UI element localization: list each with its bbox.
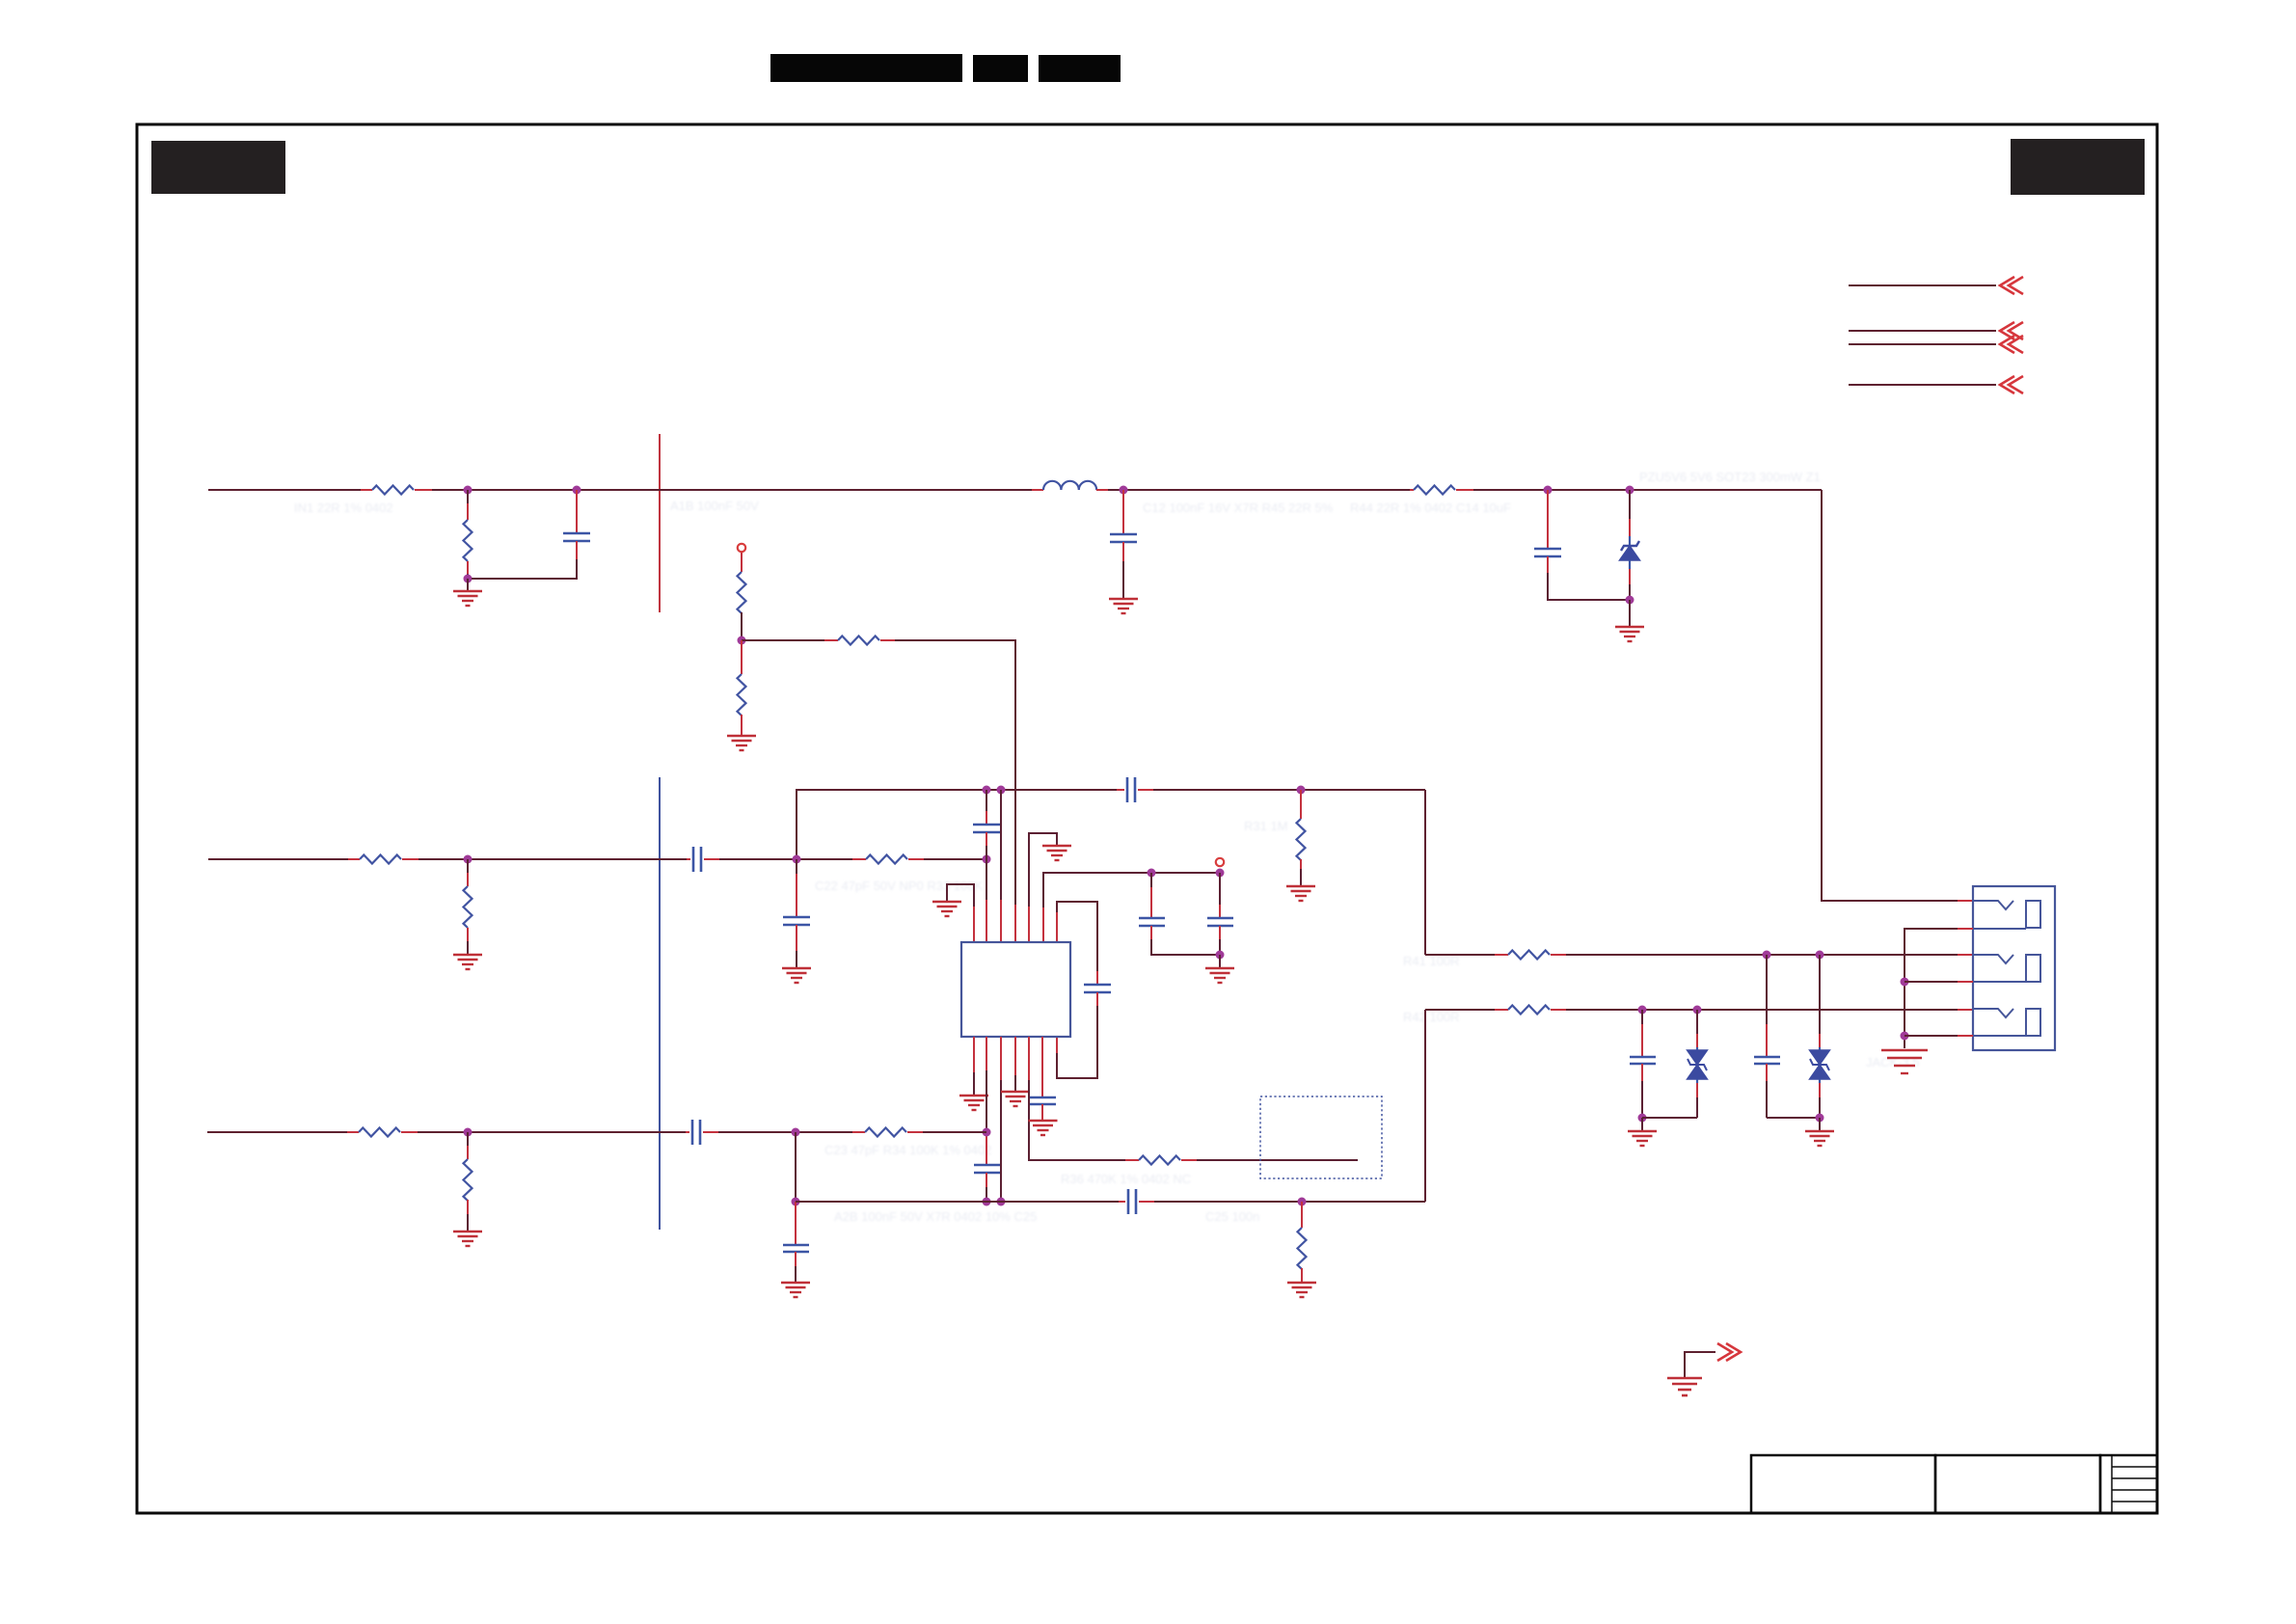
wire bottom pin4 to ground: [1014, 1037, 1016, 1092]
resistor R5 (to ground): [738, 640, 746, 736]
svg-text:R41 100R: R41 100R: [1403, 954, 1460, 968]
wire red stub into connector pin5: [1958, 1009, 1973, 1011]
svg-text:R44 22R 1% 0402 C14 10uF: R44 22R 1% 0402 C14 10uF: [1350, 501, 1511, 515]
ground GND14: [453, 1232, 482, 1246]
node dot pin3/busB: [997, 1198, 1006, 1206]
capacitor C6 (to ground): [783, 859, 810, 968]
wire input3 to pin2 column: [923, 1131, 986, 1133]
off-page connector arrow net A: [1849, 277, 2023, 294]
wire busB corner up: [1424, 1010, 1426, 1202]
wire divider lead: [467, 490, 469, 503]
wire to ground: [1819, 1118, 1821, 1131]
ground GND8: [932, 902, 961, 916]
ground GND4: [727, 736, 756, 750]
wire pin2 column with capacitor C7: [973, 790, 1000, 942]
node dot pin2/busB: [983, 1198, 991, 1206]
ground GND12: [1001, 1092, 1030, 1106]
resistor R6 (bus to ground): [1297, 790, 1306, 886]
ground GND10: [1205, 968, 1234, 983]
node dot C16/D2 junction: [1638, 1114, 1647, 1123]
svg-text:C23 47pF R34 100K 1% 0402: C23 47pF R34 100K 1% 0402: [824, 1143, 991, 1157]
ground GND7: [782, 968, 811, 983]
resistor R1: [361, 486, 432, 495]
wire branch column down: [795, 1132, 797, 1202]
ground GND18: [1805, 1131, 1834, 1146]
connector J1 body: [1973, 886, 2055, 1050]
ground GND3: [1615, 627, 1644, 641]
wire TP1 lead: [741, 553, 743, 572]
node dot bus/pin3: [997, 786, 1006, 795]
off-page connector arrow net B: [1849, 322, 2023, 339]
node dot TP net: [738, 636, 746, 645]
svg-text:C22 47pF 50V NP0 R33 100K: C22 47pF 50V NP0 R33 100K: [815, 879, 983, 893]
wire bottom pin2 column with capacitor C11: [974, 1037, 1000, 1202]
redacted title box top-right: [2011, 139, 2145, 195]
wire bottom pin5 column to resistor: [1029, 1037, 1125, 1160]
wire rail segment right: [1473, 489, 1822, 491]
ground GND2: [1109, 599, 1138, 613]
op-amp U1 (controller IC box): [961, 942, 1070, 1037]
wire lead to node: [741, 612, 743, 640]
wire busB left segment: [796, 1201, 1119, 1203]
title block cell 2: [1935, 1455, 2100, 1513]
wire pin4 link: [1904, 981, 1958, 983]
ground GND5: [1286, 886, 1315, 901]
node dot branch/busB: [792, 1198, 800, 1206]
capacitor C2: [1110, 490, 1137, 599]
node dot bus/C7: [983, 786, 991, 795]
wire input2 mid: [719, 858, 852, 860]
ghost text remnants (blurred labels): [294, 470, 1920, 1224]
wire connector sleeve return net: [1904, 929, 1958, 1048]
wire bus corner right down: [1424, 790, 1426, 955]
connector J1 jack 3: [1973, 1009, 2040, 1036]
resistor R11: [347, 1128, 418, 1137]
wire input2 to series cap: [419, 858, 687, 860]
node dot R2/C1 junction: [464, 575, 473, 583]
wire output1 right: [1566, 954, 1958, 956]
wire bottom pin1 to ground: [973, 1037, 975, 1096]
wire bus right segment: [1153, 789, 1425, 791]
wire bus corner left: [797, 790, 1117, 859]
title block revision table: [2100, 1455, 2157, 1513]
wire pin6 link: [1904, 1035, 1958, 1037]
node dot rail/R divider: [464, 486, 473, 495]
connector J1 jack 1: [1973, 901, 2040, 929]
capacitor C16 (output2 to ground): [1630, 1010, 1656, 1118]
wire input2 left: [208, 858, 348, 860]
resistor R13 (series input3 right): [852, 1128, 923, 1137]
off-page ground arrow bottom right: [1667, 1343, 1741, 1395]
ground GND1: [453, 591, 482, 606]
redacted header block 3: [1039, 55, 1121, 82]
blue bus stub vertical (middle): [659, 777, 661, 1230]
capacitor C5 (series input2): [687, 847, 719, 872]
wire red stub pin2: [1958, 928, 1973, 930]
off-page connector arrow net C: [1849, 336, 2023, 353]
wire pin3 column: [1000, 790, 1002, 942]
ground GND15: [781, 1283, 810, 1297]
svg-text:R42 100R: R42 100R: [1403, 1010, 1460, 1024]
wire output2 left: [1425, 1009, 1495, 1011]
redacted header block 1: [770, 54, 962, 82]
wire output2 right: [1566, 1009, 1958, 1011]
resistor R7: [348, 855, 419, 864]
wire busB right segment: [1154, 1201, 1425, 1203]
capacitor C8: [1139, 873, 1220, 955]
resistor R12 (divider to ground): [464, 1132, 473, 1232]
svg-text:A1B 100nF 50V: A1B 100nF 50V: [670, 499, 759, 513]
wire pin7 loop with capacitor C10: [1057, 902, 1111, 1078]
svg-text:C12 100nF 16V X7R R45 22R 5%: C12 100nF 16V X7R R45 22R 5%: [1143, 501, 1334, 515]
wire red stub pin6: [1958, 1035, 1973, 1037]
resistor R15: [1495, 951, 1566, 960]
node dot rail/C3: [1544, 486, 1553, 495]
node dot output2/C16: [1638, 1006, 1647, 1015]
wire rail corner down to connector: [1822, 490, 1958, 901]
node dot pin2/input3: [983, 1128, 991, 1137]
resistor R10 (pin5 series): [1125, 1156, 1197, 1165]
wire bottom pin3 column: [1000, 1037, 1002, 1202]
wire tp2 rail: [1144, 872, 1220, 874]
ground GND9: [1042, 846, 1071, 860]
inductor L1: [1032, 481, 1108, 490]
ground GND17: [1628, 1131, 1657, 1146]
node dot sleeve/pin6: [1901, 1032, 1909, 1041]
resistor R4: [738, 572, 746, 613]
wire output1 left: [1425, 954, 1495, 956]
ground GND13: [1029, 1121, 1058, 1135]
wire red stub pin4: [1958, 981, 1973, 983]
node dot output1/D3: [1816, 951, 1824, 960]
node dot tp2/C9: [1216, 869, 1225, 878]
wire red stub into connector pin1: [1958, 900, 1973, 902]
node dot input2/pin2: [983, 855, 991, 864]
node dot bus/R6: [1297, 786, 1306, 795]
resistor R8 (divider to ground): [464, 859, 473, 955]
capacitor C3: [1534, 490, 1630, 600]
TVS diode D2: [1688, 1010, 1708, 1118]
node dot rail/C1: [573, 486, 581, 495]
testpoint TP1: [738, 544, 745, 552]
wire input2 to pin2 column: [924, 858, 986, 860]
resistor R9 (series input2 right): [852, 855, 924, 864]
wire rail segment to inductor: [432, 489, 1032, 491]
resistor R16: [1495, 1006, 1566, 1015]
node dot sleeve/pin4: [1901, 978, 1909, 987]
node dot input3 branch: [792, 1128, 800, 1137]
wire to IC pin4 (corner): [895, 640, 1015, 905]
wire bottom pin6 column with capacitor C12: [1030, 1037, 1056, 1121]
wire red stub into connector pin3: [1958, 954, 1973, 956]
TVS diode D3: [1810, 955, 1830, 1118]
sheet border frame: [137, 124, 2157, 1513]
wire to ground: [1219, 955, 1221, 968]
resistor R2 (divider to ground): [464, 520, 473, 561]
node dot input2 divider: [464, 855, 473, 864]
wire input3 left: [207, 1131, 347, 1133]
node dot C17/D3 junction: [1816, 1114, 1824, 1123]
node dot busB/R14: [1298, 1198, 1307, 1206]
connector J1 jack 2: [1973, 955, 2040, 982]
redacted title box top-left: [151, 141, 285, 194]
wire divider lead bottom: [467, 561, 469, 574]
capacitor C4 (series on bus): [1117, 777, 1153, 802]
node dot output1/C17: [1763, 951, 1771, 960]
svg-text:A2B 100nF 50V X7R 0402 10% C25: A2B 100nF 50V X7R 0402 10% C25: [834, 1209, 1037, 1224]
capacitor C14 (branch to ground): [783, 1202, 809, 1283]
node dot rail/C2: [1120, 486, 1128, 495]
svg-text:IN1 22R 1% 0402: IN1 22R 1% 0402: [294, 501, 393, 515]
svg-text:PZU5V6 5V6 SOT23 300mW Z1: PZU5V6 5V6 SOT23 300mW Z1: [1639, 470, 1821, 484]
svg-text:R36 470K 1% 0402 NC: R36 470K 1% 0402 NC: [1061, 1172, 1191, 1186]
wire to ground: [1629, 600, 1631, 627]
resistor R14 (busB to ground): [1298, 1202, 1307, 1283]
node dot D1/C3 junction: [1626, 596, 1634, 605]
node dot C8/C9 ground junction: [1216, 951, 1225, 960]
svg-text:R31 1M: R31 1M: [1244, 819, 1288, 833]
node dot input3 divider: [464, 1128, 473, 1137]
resistor R3 (rail series right): [1410, 486, 1473, 495]
red bus stub vertical (top): [659, 434, 661, 612]
wire input3 mid: [718, 1131, 852, 1133]
wire to ground: [1641, 1118, 1643, 1131]
wire to series resistor: [742, 639, 824, 641]
ground GND11: [959, 1096, 988, 1110]
capacitor C9: [1207, 873, 1233, 955]
capacitor C17 (output1 to ground): [1754, 955, 1780, 1118]
wire pin5 hook to ground: [1029, 833, 1057, 942]
node dot output2/D2: [1693, 1006, 1702, 1015]
capacitor C1: [472, 490, 590, 579]
wire rail segment left: [208, 489, 361, 491]
node dot input2/C6: [793, 855, 801, 864]
zener diode D1: [1620, 490, 1640, 600]
node dot rail/D1: [1626, 486, 1634, 495]
wire pin1 hook to ground: [947, 884, 974, 942]
resistor R17 (testpoint net series): [824, 636, 895, 645]
off-page connector arrow net D: [1849, 376, 2023, 393]
wire C17 to D3 bottom link: [1767, 1117, 1820, 1119]
wire input3 to series cap: [418, 1131, 686, 1133]
wire pin5 net into module box: [1197, 1159, 1358, 1161]
wire to ground: [467, 579, 469, 591]
ground GND6: [453, 955, 482, 969]
module box (dashed): [1260, 1096, 1382, 1178]
wire C16 to D2 bottom link: [1642, 1117, 1697, 1119]
capacitor C13 (series input3): [686, 1120, 718, 1145]
wire red stub IC pin4: [1014, 905, 1016, 942]
ground GND16: [1287, 1283, 1316, 1297]
node dot tp2/C8: [1148, 869, 1156, 878]
testpoint TP2: [1216, 858, 1224, 866]
capacitor C15 (series busB): [1119, 1189, 1154, 1214]
wire rail segment middle: [1108, 489, 1410, 491]
redacted header block 2: [973, 55, 1028, 82]
svg-text:C25 100n: C25 100n: [1205, 1209, 1259, 1224]
ground GND19: [1881, 1050, 1928, 1073]
title block cell 1: [1751, 1455, 1935, 1513]
wire pin6 column to testpoint rail: [1043, 873, 1144, 942]
